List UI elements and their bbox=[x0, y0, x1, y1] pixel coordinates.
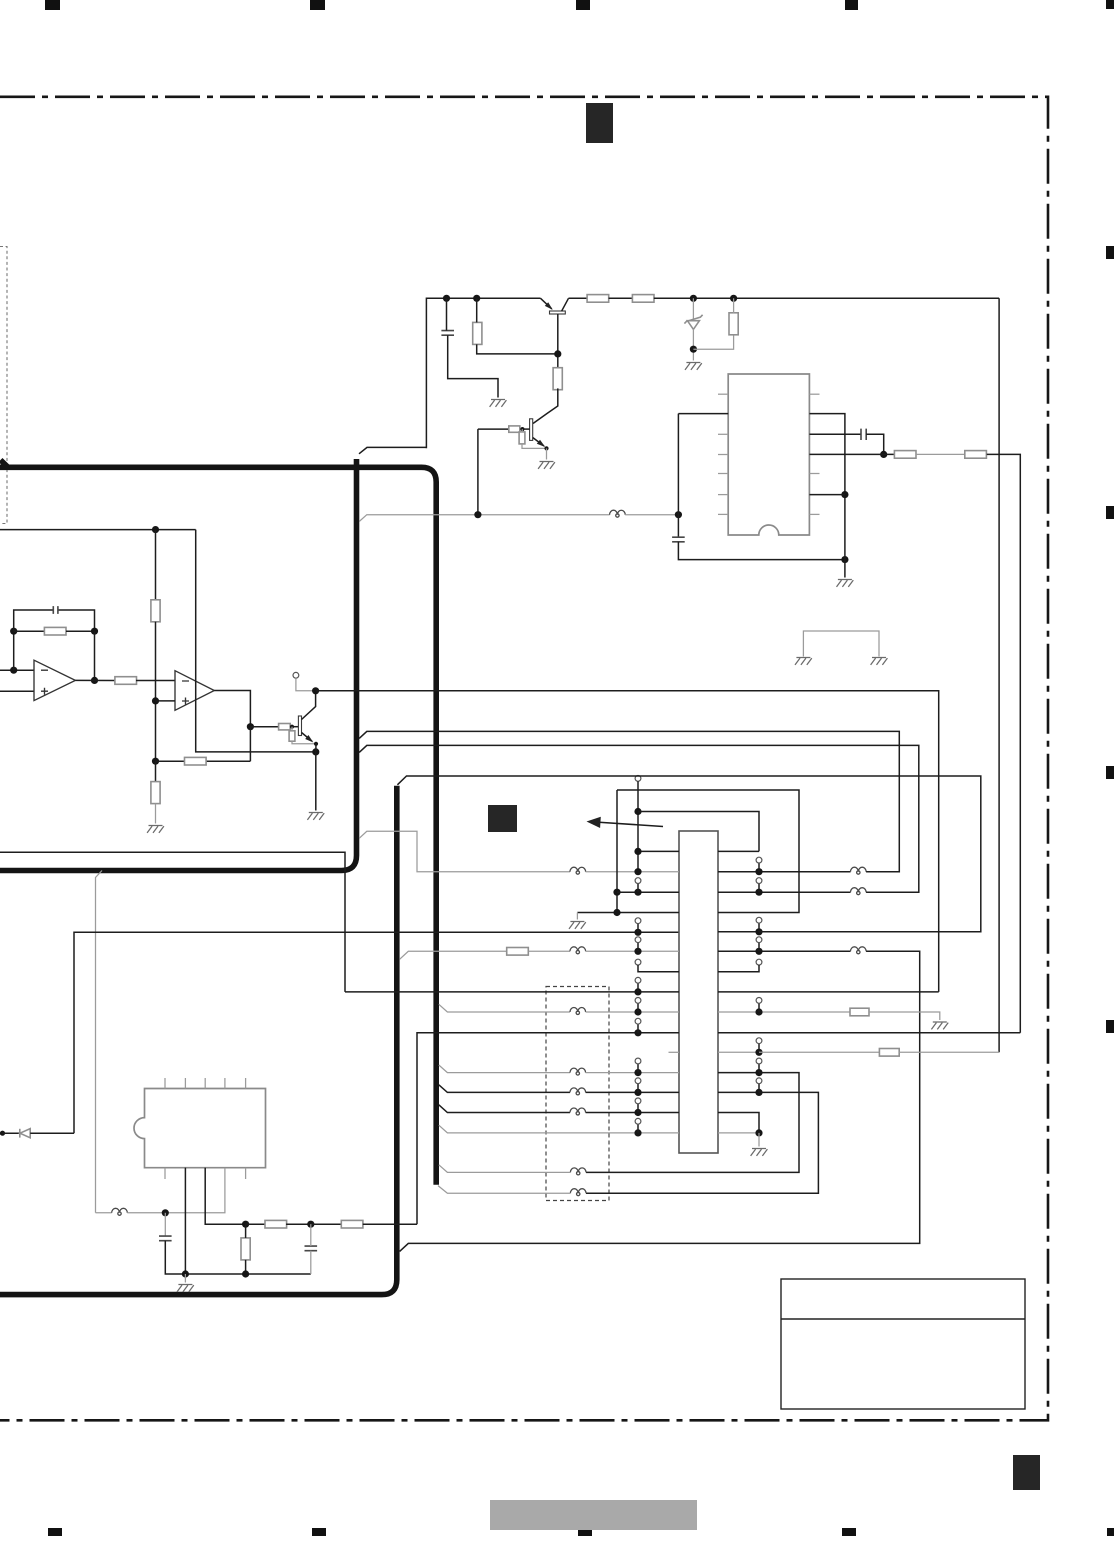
wire row6 right bbox=[718, 950, 851, 952]
resistor U3 B bbox=[341, 1220, 363, 1228]
wire frame mid bbox=[0, 852, 345, 992]
IC U1 left stub 1 bbox=[718, 433, 728, 435]
pin stub circle left bbox=[635, 959, 641, 965]
node rail B row3 bbox=[613, 889, 620, 896]
wire row1 loop bbox=[638, 812, 759, 852]
wire series to right drop bbox=[987, 454, 1021, 1032]
node row3 right bbox=[755, 889, 762, 896]
resistor bias lower bbox=[151, 782, 160, 804]
registration mark bottom right bbox=[1107, 1528, 1114, 1536]
node row5 right bbox=[755, 928, 762, 935]
wire to op2 inv bbox=[136, 680, 175, 682]
node q3 emitter bbox=[314, 742, 318, 746]
resistor Q2 base-emitter bbox=[519, 432, 525, 444]
wire U1 out row bbox=[809, 453, 894, 455]
inductor row12 return bbox=[570, 1168, 586, 1172]
node collector out bbox=[312, 687, 319, 694]
resistor Q3 base bbox=[279, 724, 291, 730]
registration mark right 0 bbox=[1106, 0, 1114, 9]
registration mark top 4 bbox=[845, 0, 858, 10]
resistor U3 A bbox=[265, 1220, 287, 1228]
resistor row11 right bbox=[879, 1049, 899, 1057]
wire control to rail bbox=[625, 514, 678, 516]
node row9 right bbox=[755, 1008, 762, 1015]
transistor Q1 emitter arrow bbox=[545, 302, 553, 310]
wire row12 left bbox=[439, 1065, 570, 1073]
label block mid bbox=[488, 805, 517, 832]
IC U1 left stub 5 bbox=[718, 513, 728, 515]
IC U3 top stub 0 bbox=[164, 1078, 166, 1089]
ground U2 right bbox=[751, 1149, 768, 1156]
wire U1 pin2 left bbox=[678, 413, 728, 415]
IC U1 left stub 2 bbox=[718, 454, 728, 456]
node Q1 base divider bbox=[554, 350, 561, 357]
test point circle bbox=[293, 672, 299, 678]
inductor row 872 right bbox=[851, 867, 867, 871]
node row12 right bbox=[755, 1069, 762, 1076]
wire row2 left bbox=[638, 850, 679, 852]
IC U3 top stub 2 bbox=[204, 1078, 206, 1089]
wire row10 right bbox=[718, 1032, 1020, 1034]
wire test point bbox=[296, 678, 316, 691]
wire bus A entry jog bbox=[359, 831, 570, 871]
wire collector long row bbox=[316, 691, 939, 992]
node diode edge bbox=[0, 1131, 5, 1136]
pointer arrow bbox=[599, 822, 663, 826]
wire bias top bbox=[0, 529, 196, 531]
wire op1 inv input bbox=[0, 669, 34, 671]
wire row13 left bbox=[439, 1085, 570, 1093]
op-amp A1 bbox=[34, 660, 75, 700]
dashed filter box bbox=[546, 987, 609, 1201]
wire op1 out bbox=[75, 679, 115, 681]
inductor row6 right bbox=[851, 947, 867, 952]
wire row9 right bbox=[718, 1011, 850, 1013]
node top rail B bbox=[473, 295, 480, 302]
IC U1 left stub 3 bbox=[718, 473, 728, 475]
node row15 left bbox=[634, 1129, 641, 1136]
transistor Q2 base bar bbox=[530, 419, 533, 441]
registration mark bottom 4 bbox=[842, 1528, 856, 1536]
node fb2 left bbox=[152, 758, 159, 765]
wire row 872 return bbox=[359, 731, 899, 871]
inductor U3 feed bbox=[112, 1208, 128, 1213]
wire row15 ground bbox=[758, 1133, 760, 1147]
inductor row 872 left bbox=[570, 867, 586, 871]
node emitter foot bbox=[312, 748, 319, 755]
bus line horizontal to bus B bbox=[0, 467, 436, 1184]
registration mark right 3 bbox=[1106, 766, 1114, 779]
inductor row6 left bbox=[570, 947, 586, 952]
resistor row9 right bbox=[850, 1008, 869, 1016]
node control rail bbox=[675, 511, 682, 518]
wire U1 pin cap row bbox=[809, 433, 861, 435]
inductor row12 left bbox=[570, 1068, 586, 1073]
inductor row14 left bbox=[570, 1108, 586, 1113]
wire right drop from top rail bbox=[998, 298, 1000, 1052]
node row1 rail bbox=[634, 808, 641, 815]
wire row12 loop bbox=[586, 1073, 799, 1173]
diode D1 bbox=[19, 1129, 21, 1138]
resistor bias vertical bbox=[473, 322, 482, 344]
IC U1 left stub 4 bbox=[718, 494, 728, 496]
wire left rail B bbox=[616, 790, 618, 913]
wire fb to output bbox=[94, 631, 96, 680]
wire U1 pin right mid bbox=[809, 494, 845, 496]
wire zener-resistor link bbox=[693, 335, 733, 350]
node op1 output bbox=[91, 677, 98, 684]
node op2 out bbox=[247, 723, 254, 730]
IC U3 bottom stub 0 bbox=[164, 1168, 166, 1179]
wire row12 right bbox=[718, 1072, 759, 1074]
wire row6 left b bbox=[529, 950, 570, 952]
ground row9 bbox=[931, 1022, 948, 1029]
node row13 left bbox=[634, 1089, 641, 1096]
node row8 left bbox=[634, 988, 641, 995]
IC U1 bbox=[728, 374, 809, 535]
registration mark right 1 bbox=[1106, 246, 1114, 259]
resistor feedback 2 bbox=[185, 757, 207, 765]
resistor series A bbox=[894, 451, 916, 459]
wire Q1 base drop bbox=[557, 314, 559, 369]
wire row3 return bbox=[359, 745, 919, 892]
resistor series B bbox=[965, 451, 987, 459]
wire cap to node bbox=[866, 434, 884, 454]
wire row3 left bbox=[617, 891, 679, 893]
wire op1 noninv input bbox=[0, 690, 34, 692]
wire row11 right bbox=[718, 1051, 759, 1053]
resistor feedback bbox=[44, 627, 66, 635]
resistor Q2 base bbox=[509, 426, 520, 432]
wire bias rail lower bbox=[155, 761, 157, 781]
wire U3 shunt bbox=[245, 1224, 247, 1238]
wire row11 right c bbox=[899, 1051, 999, 1053]
wire to zener node bbox=[654, 297, 999, 299]
registration mark right 2 bbox=[1106, 506, 1114, 519]
ground zener bbox=[685, 363, 702, 370]
wire row11 right b bbox=[759, 1051, 879, 1053]
wire row9 left bbox=[439, 1004, 570, 1012]
capacitor bias bbox=[441, 331, 454, 336]
node Q2 base bbox=[520, 427, 524, 431]
wire zener anode bbox=[692, 329, 694, 361]
node row 872 right bbox=[755, 868, 762, 875]
ground U1 rail bbox=[837, 580, 854, 587]
capacitor U1 out bbox=[861, 429, 866, 440]
ground U3 bbox=[177, 1285, 194, 1292]
wire row13 loop b bbox=[438, 1186, 570, 1194]
wire fb res right bbox=[66, 630, 95, 632]
node row6 right bbox=[755, 948, 762, 955]
node op2 noninv bbox=[152, 697, 159, 704]
ground bias cap bbox=[490, 400, 507, 407]
node row14 left bbox=[634, 1109, 641, 1116]
resistor Q2 collector bbox=[553, 368, 562, 390]
capacitor U3 B bbox=[305, 1246, 318, 1251]
node row12 left bbox=[634, 1069, 641, 1076]
node row6 left bbox=[634, 948, 641, 955]
node series row bbox=[880, 451, 887, 458]
node U3 feed bbox=[162, 1209, 169, 1216]
wire Q2 be-resistor bbox=[521, 429, 523, 432]
node Q2 emitter bbox=[544, 446, 548, 450]
registration mark bottom 2 bbox=[312, 1528, 326, 1536]
wire bias rail upper bbox=[155, 530, 157, 600]
wire row15 left bbox=[439, 1125, 679, 1133]
ground bridge left bbox=[795, 658, 812, 665]
wire row 872 right bbox=[718, 871, 851, 873]
node row5 left bbox=[634, 929, 641, 936]
node row9 left bbox=[634, 1008, 641, 1015]
wire row5 return bbox=[397, 776, 980, 932]
stub row11 left bbox=[669, 1051, 680, 1053]
wire Q2 emitter ground bbox=[546, 448, 548, 459]
node zener top bbox=[690, 295, 697, 302]
wire q3 base bbox=[250, 726, 278, 728]
node U3 out A bbox=[242, 1221, 249, 1228]
wire cap to ground run bbox=[446, 298, 448, 330]
resistor R1 top bbox=[587, 295, 609, 303]
wire diode right bbox=[30, 1132, 74, 1134]
transistor Q3 collector bbox=[302, 691, 316, 720]
wire row13 left b bbox=[586, 1091, 679, 1093]
note table divider bbox=[781, 1318, 1025, 1320]
wire U3 cap drop bbox=[164, 1213, 166, 1236]
wire bus A entry control bbox=[359, 515, 609, 522]
node zener anode bbox=[690, 346, 697, 353]
node U1 right rail mid bbox=[841, 491, 848, 498]
wire U3 pin2 drop bbox=[184, 1168, 186, 1274]
IC U1 right stub 0 bbox=[809, 393, 819, 395]
node row 872 left bbox=[634, 868, 641, 875]
wire fb cap loop bbox=[14, 610, 54, 631]
node top rail A bbox=[443, 295, 450, 302]
node U3 gnd bbox=[182, 1270, 189, 1277]
registration mark top 3 bbox=[576, 0, 590, 10]
node inv input bbox=[10, 667, 17, 674]
IC U3 bottom stub 4 bbox=[245, 1168, 247, 1179]
ground Q2 bbox=[538, 462, 555, 469]
node U3 shunt gnd bbox=[242, 1270, 249, 1277]
resistor U3 shunt bbox=[241, 1238, 250, 1260]
wire loop down left bbox=[196, 530, 316, 752]
bus line end tick bbox=[1, 460, 9, 467]
node row10 left bbox=[634, 1029, 641, 1036]
zener diode bbox=[692, 298, 694, 320]
transistor Q3 base bar bbox=[298, 716, 301, 736]
inductor row13 left bbox=[570, 1088, 586, 1093]
node rail B row4 bbox=[613, 909, 620, 916]
inductor row13 return bbox=[570, 1189, 586, 1194]
wire U3 capB bbox=[310, 1224, 312, 1246]
ground foot bbox=[307, 813, 324, 820]
wire U3 out row a bbox=[246, 1223, 266, 1225]
wire row4 left bbox=[577, 912, 679, 914]
IC U1 left stub 0 bbox=[718, 393, 728, 395]
wire row4 ground stub bbox=[576, 913, 578, 920]
IC U3 top stub 3 bbox=[224, 1078, 226, 1089]
wire between top resistors bbox=[609, 297, 633, 299]
resistor shunt vertical bbox=[729, 313, 738, 335]
wire row 872 left bbox=[586, 871, 679, 873]
wire bus A exit drop bbox=[96, 871, 103, 1213]
wire big loop left bbox=[74, 932, 679, 1133]
capacitor U1 rail bbox=[672, 537, 685, 542]
wire op2 noninv bbox=[156, 700, 176, 702]
gray tab bar bottom bbox=[490, 1500, 697, 1530]
inductor row3 right bbox=[851, 888, 867, 892]
registration mark right 4 bbox=[1106, 1020, 1114, 1033]
label block bottom right bbox=[1013, 1455, 1040, 1490]
node fb left bbox=[10, 628, 17, 635]
wire row14 left bbox=[439, 1105, 570, 1113]
wire q3 be bbox=[291, 727, 293, 731]
wire U3 pin feed bbox=[96, 1212, 112, 1214]
note table box bbox=[781, 1279, 1025, 1409]
ground bridge right bbox=[871, 658, 888, 665]
wire foot ground bbox=[315, 752, 317, 811]
transistor Q3 emitter wire bbox=[302, 733, 313, 742]
wire bias rail mid bbox=[155, 622, 157, 761]
wire U3 out row c bbox=[311, 1223, 342, 1225]
wire row14 left b bbox=[586, 1112, 679, 1114]
wire Q2 base feed drop bbox=[477, 429, 479, 515]
IC U3 top stub 1 bbox=[184, 1078, 186, 1089]
connector pin circle top bbox=[635, 776, 641, 782]
capacitor feedback bbox=[53, 606, 58, 614]
wire left rail top bbox=[637, 781, 639, 871]
wire U3 gnd stub bbox=[184, 1274, 186, 1283]
wire row9 left b bbox=[586, 1011, 679, 1013]
node bias top bbox=[152, 526, 159, 533]
bus line C vertical bbox=[0, 786, 397, 1295]
wire Q2 collector bbox=[533, 388, 558, 423]
wire row8 right bbox=[718, 991, 939, 993]
registration mark top 2 bbox=[310, 0, 325, 10]
ground row4 bbox=[569, 922, 586, 929]
wire U3 out row b bbox=[286, 1223, 311, 1225]
wire fb2 bbox=[249, 727, 251, 762]
wire U1 left rail bbox=[677, 414, 679, 538]
IC U1 right stub 2 bbox=[809, 513, 819, 515]
wire bus A entry upper bbox=[359, 447, 426, 453]
transistor Q2 emitter wire bbox=[533, 438, 544, 447]
inductor control line bbox=[610, 510, 626, 514]
wire row10 left bbox=[417, 1033, 679, 1224]
node q3 base bbox=[290, 725, 294, 729]
node row15 right bbox=[755, 1129, 762, 1136]
wire row13 loop bbox=[586, 1092, 818, 1193]
IC U3 bbox=[134, 1089, 266, 1168]
node row2 left bbox=[634, 848, 641, 855]
resistor bias upper bbox=[151, 600, 160, 622]
wire row12 loop b bbox=[439, 1165, 571, 1173]
node U1 rail bottom bbox=[841, 556, 848, 563]
node row11 right bbox=[755, 1049, 762, 1056]
node row3 left bbox=[634, 889, 641, 896]
wire resistor drop bbox=[476, 298, 478, 322]
pin stub circle right bbox=[756, 959, 762, 965]
wire row6 left bbox=[400, 951, 507, 959]
transistor Q1 base bar bbox=[550, 311, 566, 314]
wire U1 pin right top bbox=[809, 414, 845, 578]
capacitor U3 A bbox=[159, 1236, 172, 1241]
wire row13 right bbox=[718, 1091, 759, 1093]
wire U3 out row d bbox=[363, 1223, 417, 1225]
section label block top bbox=[586, 103, 613, 143]
IC U1 right stub 1 bbox=[809, 473, 819, 475]
transistor Q1 emitter wire bbox=[541, 298, 552, 309]
node fb right bbox=[91, 628, 98, 635]
node control Q2 tap bbox=[474, 511, 481, 518]
transistor Q3 emitter arrow bbox=[305, 735, 313, 743]
wire fb res left bbox=[14, 630, 45, 632]
wire row5 right bbox=[718, 931, 759, 933]
wire U3 pin3 drop bbox=[205, 1168, 245, 1225]
wire U1 rail bottom bbox=[678, 542, 845, 560]
wire row9 right b bbox=[869, 1012, 940, 1020]
wire between series resistors bbox=[916, 453, 965, 455]
wire row2 right bbox=[718, 850, 759, 852]
wire Q1 collector to resistors bbox=[569, 297, 588, 299]
dashed connector outline left bbox=[0, 247, 7, 524]
resistor row6 bbox=[507, 948, 529, 956]
transistor Q2 emitter arrow bbox=[537, 440, 545, 447]
registration mark bottom 1 bbox=[48, 1528, 62, 1536]
wire diode left bbox=[3, 1132, 20, 1134]
resistor Q3 base-emitter bbox=[289, 731, 295, 741]
wire feedback node left bbox=[13, 631, 15, 670]
wire row6 return bbox=[400, 951, 920, 1251]
IC U2 bbox=[679, 831, 718, 1153]
resistor interstage bbox=[115, 677, 137, 685]
wire shunt top bbox=[733, 298, 735, 313]
wire Q2 base bbox=[478, 428, 509, 430]
registration mark bottom 3 bbox=[578, 1528, 592, 1536]
wire U3 feed b bbox=[127, 1168, 225, 1213]
node row13 right bbox=[755, 1089, 762, 1096]
wire q3 emitter to foot bbox=[315, 744, 317, 752]
ground bias chain bbox=[147, 826, 164, 833]
bus line A vertical bbox=[0, 459, 357, 871]
IC U3 top stub 4 bbox=[245, 1078, 247, 1089]
wire ground bridge bbox=[803, 631, 879, 657]
wire op2 out bbox=[214, 691, 250, 727]
wire row14 right bbox=[718, 1113, 759, 1133]
node U3 out B bbox=[307, 1221, 314, 1228]
wire q3 base 2 bbox=[290, 726, 298, 728]
inductor row9 left bbox=[570, 1008, 586, 1013]
transistor Q1 collector wire bbox=[562, 298, 569, 311]
resistor R2 top bbox=[632, 295, 654, 303]
wire row3 right bbox=[718, 891, 851, 893]
op-amp A2 bbox=[175, 671, 214, 711]
wire U3 cap bottom bbox=[165, 1241, 310, 1274]
registration mark top 1 bbox=[45, 0, 60, 10]
wire top rail bbox=[426, 298, 540, 448]
wire bias to ground bbox=[155, 804, 157, 824]
wire row12 left b bbox=[586, 1072, 679, 1074]
wire row6 left c bbox=[586, 950, 679, 952]
node shunt resistor top bbox=[730, 295, 737, 302]
wire row4 right loop bbox=[617, 790, 799, 913]
wire row15 right bbox=[718, 1132, 759, 1134]
wire row8 left bbox=[345, 991, 679, 993]
